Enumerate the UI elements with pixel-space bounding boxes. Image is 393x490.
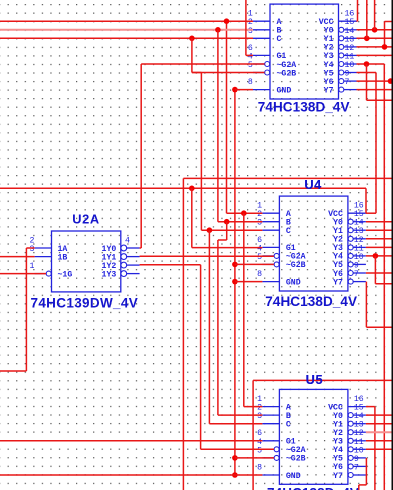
- svg-text:1B: 1B: [58, 253, 68, 262]
- svg-text:~1G: ~1G: [58, 270, 73, 279]
- wire U5.Y3 to right edge: [366, 440, 393, 442]
- wire net C vertical to U5: [208, 230, 210, 424]
- wire net C horizontal to U3.C: [0, 37, 253, 39]
- svg-text:8: 8: [257, 270, 262, 279]
- junction net A top: [224, 18, 230, 24]
- wire into U3.GND: [235, 89, 253, 91]
- U5 left pins: [262, 406, 279, 408]
- svg-text:5: 5: [257, 253, 262, 262]
- svg-text:Y7: Y7: [333, 278, 343, 287]
- wire U4.Y6 to right edge: [366, 272, 393, 274]
- svg-text:U5: U5: [306, 372, 324, 387]
- wire net A vertical to U5: [243, 213, 245, 406]
- svg-text:8: 8: [248, 78, 253, 87]
- wire U5.VCC down: [366, 406, 375, 408]
- wire long horizontal above U5: [253, 379, 393, 381]
- wire U2A.1Y2 corner down to U5 ~G2A: [140, 264, 201, 266]
- U4 body box: [279, 196, 348, 291]
- wire GND chain vertical: [234, 90, 236, 475]
- svg-text:74HC138D_4V: 74HC138D_4V: [265, 294, 357, 309]
- wire net A into U5.A: [244, 406, 263, 408]
- wire U3.Y2 to right edge: [357, 46, 393, 48]
- wire into U4.GND: [235, 281, 263, 283]
- wire Y0 branch up: [374, 0, 376, 30]
- wire net B into U5.B: [218, 414, 263, 416]
- wire into U4 ~G2B: [235, 263, 274, 265]
- wire h1 vertical drop to bottom: [182, 178, 184, 490]
- wire U5.Y5 down-left: [365, 458, 367, 485]
- wire U5.GND row from left edge: [0, 474, 262, 476]
- wire U2A.1Y0 to U3 ~G2A: [141, 63, 264, 65]
- screen right edge black bar: [392, 0, 393, 490]
- U2A left pins: [35, 247, 52, 249]
- wire U4.Y2 to right edge: [366, 238, 393, 240]
- junction net C at U4: [207, 227, 213, 233]
- U5 body box: [279, 389, 348, 484]
- svg-text:7: 7: [345, 78, 350, 87]
- svg-text:GND: GND: [286, 472, 301, 481]
- wire drop from 380-line to bottom edge: [252, 380, 254, 490]
- wire Y4 long vertical to bottom: [383, 64, 385, 490]
- wire U4.Y1 to right edge: [366, 229, 393, 231]
- wire Y5 vertical to U4.VCC: [375, 73, 377, 214]
- wire U4.Y7 down-right: [365, 282, 367, 328]
- junction net A at U4: [241, 210, 247, 216]
- svg-text:1Y3: 1Y3: [102, 270, 117, 279]
- junction at U5.GND: [232, 472, 238, 478]
- wire net C jog at ~G2B row: [192, 72, 202, 74]
- wire U5.Y2 to right edge (highlighted): [366, 431, 393, 433]
- junction net B top: [215, 27, 221, 33]
- wire net C into U5.C: [209, 423, 262, 425]
- wire U5.G1 from left edge: [0, 440, 262, 442]
- wire U3 ~G2B from jog to pin: [192, 72, 265, 74]
- svg-text:Y7: Y7: [324, 86, 334, 95]
- wire h1 long horizontal: [183, 177, 393, 179]
- wire net C into U4.C: [201, 229, 262, 231]
- wire U5.Y4 to right edge: [366, 448, 393, 450]
- wire U4.Y0 to right edge: [366, 221, 393, 223]
- junction Y1: [364, 36, 370, 42]
- svg-text:7: 7: [354, 463, 359, 472]
- svg-text:74HC139DW_4V: 74HC139DW_4V: [30, 296, 138, 311]
- svg-text:74HC138D_4V: 74HC138D_4V: [267, 486, 359, 490]
- U2A right pins: [121, 245, 127, 251]
- junction net C top: [189, 36, 195, 42]
- wire U5.Y0 to right edge: [366, 414, 393, 416]
- wire U3.Y5: [357, 72, 377, 74]
- junction on h2: [189, 186, 195, 192]
- U3 right pins: [339, 20, 357, 22]
- junction net B at U4: [224, 219, 230, 225]
- svg-text:5: 5: [257, 446, 262, 455]
- wire net C vertical drop: [191, 38, 193, 72]
- svg-text:8: 8: [257, 463, 262, 472]
- junction Y6 at edge: [388, 78, 393, 84]
- svg-text:4: 4: [125, 236, 130, 245]
- junction at U4.GND: [232, 279, 238, 285]
- wire U3.Y0 to right edge: [357, 29, 393, 31]
- svg-text:GND: GND: [277, 86, 292, 95]
- svg-text:U4: U4: [304, 177, 322, 192]
- junction at U5 ~G2B row: [232, 455, 238, 461]
- wire net B vertical to U5: [226, 222, 228, 240]
- wire U4.Y3 to right edge: [366, 246, 393, 248]
- wire U3 G1 from top edge: [245, 0, 247, 55]
- wire U2A.1A from left edge via vertical: [26, 247, 34, 249]
- svg-text:74HC138D_4V: 74HC138D_4V: [258, 99, 350, 114]
- junction Y4: [364, 61, 370, 67]
- wire U4.Y4 branch down-right: [374, 256, 376, 284]
- svg-text:3: 3: [248, 27, 253, 36]
- wire net A into U4.A: [227, 212, 263, 214]
- wire U2A.1Y1 to U4 ~G2A: [140, 255, 274, 257]
- svg-text:C: C: [277, 35, 282, 44]
- svg-text:C: C: [286, 421, 291, 430]
- wire U4.Y4 to right edge: [366, 255, 393, 257]
- wire net B jog: [218, 239, 227, 241]
- svg-text:3: 3: [257, 219, 262, 228]
- wire into U5 ~G2B: [235, 457, 274, 459]
- svg-text:GND: GND: [286, 278, 301, 287]
- svg-text:3: 3: [30, 245, 35, 254]
- wire U5.Y1 to right edge: [366, 423, 393, 425]
- U5 right pins: [348, 406, 366, 408]
- wire U3.Y3 to right edge: [357, 54, 393, 56]
- U4 left pins: [262, 212, 279, 214]
- wire U3.Y7 to right edge: [357, 89, 393, 91]
- U3 body box: [270, 4, 339, 99]
- svg-text:~G2B: ~G2B: [286, 261, 306, 270]
- junction GND chain at U3.GND: [232, 87, 238, 93]
- svg-text:C: C: [286, 227, 291, 236]
- junction Y2: [382, 44, 388, 50]
- wire net B horizontal to U3.B (highlighted): [0, 29, 253, 31]
- svg-text:7: 7: [354, 270, 359, 279]
- wire U3.Y6 to right edge: [357, 80, 393, 82]
- wire right-edge branch to Y2: [385, 21, 393, 23]
- wire net A horizontal to U3.A: [0, 20, 253, 22]
- wire net B into U4.B: [218, 221, 263, 223]
- wire net B vertical drop: [217, 30, 219, 222]
- junction at U4 ~G2B row: [232, 262, 238, 268]
- svg-text:~G2B: ~G2B: [286, 455, 306, 464]
- wire net A vertical drop: [226, 21, 228, 213]
- svg-text:3: 3: [257, 412, 262, 421]
- wire U3.Y4: [357, 63, 385, 65]
- wire U2A.~1G from left edge: [0, 273, 46, 275]
- svg-text:Y7: Y7: [333, 472, 343, 481]
- wire Y1 branch up: [366, 0, 368, 38]
- wire h2 long horizontal to U4.VCC: [0, 187, 366, 189]
- wire Y4 branch down-right: [366, 64, 368, 100]
- U4 right pins: [348, 212, 366, 214]
- wire U3.VCC up to top edge: [357, 20, 358, 22]
- svg-text:U2A: U2A: [72, 212, 99, 227]
- svg-text:~G2B: ~G2B: [277, 69, 297, 78]
- junction U4.Y4: [373, 253, 379, 259]
- wire U3.Y1 to right edge: [357, 37, 393, 39]
- wire U2A.1B from left edge: [0, 256, 35, 258]
- op U2A 74HC139 decoder: [52, 231, 121, 292]
- wire h2 branch vertical to U4.G1: [191, 188, 193, 247]
- U3 left pins: [253, 20, 270, 22]
- svg-text:1: 1: [30, 262, 35, 271]
- junction Y0: [372, 27, 378, 33]
- svg-text:5: 5: [248, 61, 253, 70]
